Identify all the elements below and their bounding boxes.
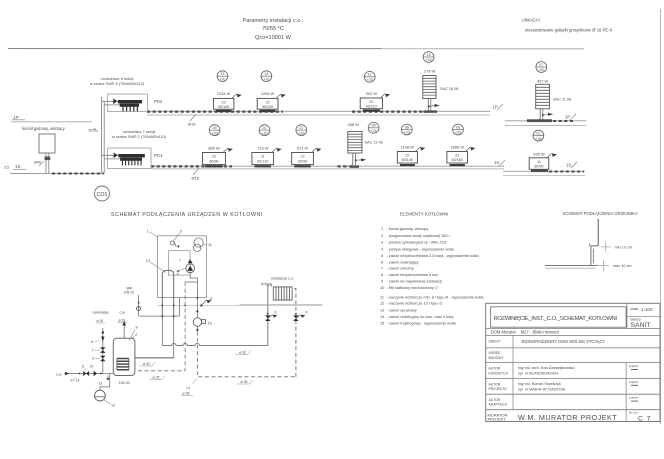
svg-text:438 W: 438 W bbox=[348, 122, 360, 127]
wire: top ceiling line bbox=[8, 48, 584, 50]
note: UWAGA remark bbox=[522, 18, 613, 33]
svg-text:60/90: 60/90 bbox=[534, 165, 543, 169]
svg-text:AUTOR: AUTOR bbox=[489, 398, 501, 402]
svg-text:278 W: 278 W bbox=[424, 69, 436, 74]
label diam 16 first floor bbox=[188, 114, 196, 127]
svg-text:branża: branża bbox=[631, 317, 641, 321]
svg-text:AUTOR: AUTOR bbox=[489, 382, 501, 386]
radiator R8 1688W 22 60/160 bbox=[447, 144, 476, 166]
svg-text:7: 7 bbox=[179, 259, 181, 263]
svg-text:PROJEKTU: PROJEKTU bbox=[489, 387, 508, 391]
svg-text:podpis: podpis bbox=[629, 380, 639, 384]
node label room 13 +20 bbox=[217, 71, 228, 82]
note: installation parameters bbox=[243, 18, 304, 41]
svg-text:08: 08 bbox=[405, 125, 409, 129]
svg-text:+20: +20 bbox=[367, 78, 373, 82]
svg-text:9 / 14: 9 / 14 bbox=[71, 379, 80, 383]
svg-text:14: 14 bbox=[264, 72, 268, 76]
svg-text:ELEMENTY KOTŁOWNI: ELEMENTY KOTŁOWNI bbox=[400, 212, 448, 217]
svg-text:L1: L1 bbox=[187, 386, 191, 390]
svg-text:DN 20: DN 20 bbox=[124, 291, 134, 295]
node 1P marker right bbox=[565, 114, 576, 120]
svg-text:skala: skala bbox=[631, 307, 639, 311]
towel radiator T1 278W SAC 18 08 bbox=[423, 69, 459, 113]
zw cold water inlet bbox=[56, 365, 113, 383]
svg-text:13: 13 bbox=[146, 259, 150, 263]
svg-text:1P: 1P bbox=[565, 115, 570, 120]
boiler casing box bbox=[147, 230, 207, 298]
radiator R5 713W 11 60/120 bbox=[252, 145, 282, 167]
valve 6 on return bbox=[293, 311, 307, 322]
radiator return pipe dashed bbox=[292, 289, 296, 377]
svg-text:z.w.: z.w. bbox=[56, 373, 62, 377]
svg-text:+20: +20 bbox=[220, 77, 226, 81]
svg-text:6: 6 bbox=[275, 311, 277, 315]
svg-text:+20: +20 bbox=[298, 131, 304, 135]
svg-text:mgr inż. arch. Ewa Dziewiątkow: mgr inż. arch. Ewa Dziewiątkowska bbox=[518, 366, 574, 370]
svg-text:8: 8 bbox=[136, 326, 138, 330]
svg-text:07: 07 bbox=[539, 63, 543, 67]
svg-text:niezaizolowane gałązki grzejni: niezaizolowane gałązki grzejnikowe Ø 16 … bbox=[525, 28, 612, 33]
svg-text:ø 22: ø 22 bbox=[119, 319, 126, 323]
svg-text:1284 W: 1284 W bbox=[261, 91, 275, 96]
svg-text:SAC 18 08: SAC 18 08 bbox=[440, 87, 458, 91]
svg-text:w szafce SWP-2 (700x560x110): w szafce SWP-2 (700x560x110) bbox=[112, 135, 167, 139]
node label room 09 +20 bbox=[209, 125, 220, 136]
three-way valve 15 bbox=[193, 297, 212, 331]
pump outlet drop bbox=[190, 273, 197, 282]
pipe diameter tag supply bbox=[236, 351, 252, 355]
node label room 02 +20 bbox=[259, 125, 270, 136]
svg-text:DOM Murator M27 - Blisko ma: DOM Murator M27 - Blisko marzeń bbox=[491, 330, 560, 335]
cw outlet arrow bbox=[118, 311, 128, 339]
svg-text:Qco=10001 W: Qco=10001 W bbox=[255, 35, 292, 41]
svg-text:713 W: 713 W bbox=[257, 145, 269, 150]
svg-text:KONCEPCJI: KONCEPCJI bbox=[489, 371, 508, 375]
svg-text:11 - naczynie wzbiorcze min.: 11 - naczynie wzbiorcze min. 8 l typu N … bbox=[380, 294, 484, 299]
svg-text:ø 16: ø 16 bbox=[97, 319, 104, 323]
svg-text:UWAGA!: UWAGA! bbox=[522, 18, 540, 23]
svg-text:10 - filtr siatkowy mechanicz: 10 - filtr siatkowy mechaniczny 1" bbox=[380, 285, 439, 290]
svg-text:ø16: ø16 bbox=[261, 282, 267, 286]
node label room 01 +20 bbox=[296, 125, 307, 136]
svg-text:BUDOWY: BUDOWY bbox=[489, 356, 505, 360]
gas supply line bbox=[124, 286, 179, 317]
boiler connection line with valve 8 bbox=[158, 297, 323, 307]
svg-text:22: 22 bbox=[455, 154, 459, 158]
svg-text:10: 10 bbox=[90, 365, 94, 369]
wire: ground floor line at boiler bbox=[10, 172, 104, 174]
radiator connection detail bbox=[545, 211, 638, 271]
svg-text:instalacja c.o.: instalacja c.o. bbox=[271, 277, 294, 281]
node label room 16 +24 bbox=[423, 52, 434, 63]
svg-text:16: 16 bbox=[427, 53, 431, 57]
svg-text:6: 6 bbox=[306, 311, 308, 315]
svg-text:rozdzielacz 5 sekcji: rozdzielacz 5 sekcji bbox=[101, 77, 134, 81]
node CO1 bbox=[95, 186, 110, 201]
svg-text:Parametry instalacji c.o.:: Parametry instalacji c.o.: bbox=[243, 18, 304, 24]
svg-text:ADAPTACJI: ADAPTACJI bbox=[489, 403, 507, 407]
svg-text:SAC 11 08: SAC 11 08 bbox=[365, 141, 383, 145]
svg-text:22: 22 bbox=[222, 100, 226, 104]
svg-text:4: 4 bbox=[177, 272, 179, 276]
svg-text:SANIT: SANIT bbox=[631, 322, 651, 329]
radiator supply pipe bbox=[268, 284, 271, 346]
boiler hydro block inner box bbox=[169, 251, 191, 275]
svg-text:ø 25: ø 25 bbox=[153, 376, 160, 380]
svg-text:5 - zawór bezpieczeństwa 2.5: 5 - zawór bezpieczeństwa 2.5 bara - wypo… bbox=[381, 253, 479, 258]
radiator R1 1234W 22 45/140 bbox=[213, 91, 241, 112]
svg-text:14 - zawór redukcyjny do ciśn: 14 - zawór redukcyjny do ciśn. max 4 bar… bbox=[380, 314, 454, 319]
svg-text:12 - naczynie wzbiorcze 12 l: 12 - naczynie wzbiorcze 12 l typu D bbox=[380, 301, 442, 306]
svg-text:+20: +20 bbox=[212, 131, 218, 135]
legend: elementy kotlowni bbox=[380, 212, 484, 326]
svg-text:22: 22 bbox=[405, 154, 409, 158]
svg-text:+20: +20 bbox=[538, 68, 544, 72]
svg-text:01: 01 bbox=[536, 131, 540, 135]
scan right edge line bbox=[660, 9, 662, 424]
instalacja co radiator bbox=[261, 277, 294, 301]
svg-text:+20: +20 bbox=[455, 131, 461, 135]
svg-text:w szafce SWP-2 (700x560x110): w szafce SWP-2 (700x560x110) bbox=[90, 82, 145, 86]
svg-text:889 W: 889 W bbox=[208, 145, 220, 150]
svg-text:1688 W: 1688 W bbox=[450, 144, 464, 149]
svg-text:min 10 cm: min 10 cm bbox=[615, 246, 633, 250]
svg-text:6 - zawór odcinający: 6 - zawór odcinający bbox=[381, 259, 419, 264]
svg-text:PG1: PG1 bbox=[154, 153, 163, 158]
svg-text:1234 W: 1234 W bbox=[217, 91, 231, 96]
svg-text:ø 32: ø 32 bbox=[143, 362, 150, 366]
label diam 16 ground floor bbox=[192, 168, 200, 181]
co supply line to radiator bbox=[162, 343, 267, 345]
manifold PG2 (5 sections) bbox=[90, 77, 163, 112]
svg-text:60/90: 60/90 bbox=[209, 160, 218, 164]
wire: offset bend bbox=[591, 246, 598, 266]
svg-text:rozdzielacz 7 sekcji: rozdzielacz 7 sekcji bbox=[123, 130, 156, 134]
svg-text:1 - kociół gazowy, wiszący: 1 - kociół gazowy, wiszący bbox=[381, 226, 429, 231]
wire: right section first floor line bbox=[505, 121, 587, 126]
svg-text:1:100: 1:100 bbox=[641, 307, 653, 312]
svg-text:70/55 °C: 70/55 °C bbox=[262, 26, 284, 32]
svg-text:ø 32: ø 32 bbox=[239, 351, 246, 355]
towel radiator T2 438W SAC 11 08 bbox=[346, 122, 383, 168]
svg-text:01: 01 bbox=[299, 126, 303, 130]
svg-text:13: 13 bbox=[221, 72, 225, 76]
svg-text:Ø25: Ø25 bbox=[89, 129, 96, 133]
wire: ground floor pipe line bbox=[151, 166, 504, 169]
svg-text:+24: +24 bbox=[371, 129, 377, 133]
radiator R4 889W 22 60/90 bbox=[203, 145, 233, 167]
radiator R3 902W 22 45/110 bbox=[360, 91, 390, 112]
svg-text:06: 06 bbox=[456, 125, 460, 129]
svg-text:+20: +20 bbox=[263, 77, 269, 81]
svg-text:6: 6 bbox=[91, 340, 93, 344]
svg-text:2 - podgrzewacz wody użytkow: 2 - podgrzewacz wody użytkowej 150 l bbox=[381, 233, 450, 238]
svg-text:7: 7 bbox=[92, 349, 94, 353]
svg-text:1P: 1P bbox=[14, 115, 19, 120]
svg-text:60/100: 60/100 bbox=[402, 158, 413, 162]
svg-text:02: 02 bbox=[263, 126, 267, 130]
svg-text:+16: +16 bbox=[535, 137, 541, 141]
wire: riser from radiator bbox=[597, 219, 599, 246]
svg-text:+24: +24 bbox=[426, 58, 432, 62]
svg-text:8 - zawór bezpieczeństwa 6 b: 8 - zawór bezpieczeństwa 6 bar bbox=[381, 272, 439, 277]
svg-text:60/120: 60/120 bbox=[257, 160, 268, 164]
svg-text:OBIEKT: OBIEKT bbox=[489, 340, 501, 344]
svg-text:04: 04 bbox=[372, 124, 376, 128]
title block texts bbox=[488, 307, 653, 423]
svg-text:1148 W: 1148 W bbox=[401, 144, 414, 149]
svg-text:8: 8 bbox=[210, 297, 212, 301]
node 1S marker right bbox=[566, 162, 577, 168]
svg-text:11: 11 bbox=[208, 243, 212, 247]
expansion vessel N (11) bbox=[194, 238, 212, 252]
svg-text:3 - pompa cyrkulacyjna np. W: 3 - pompa cyrkulacyjna np. Wilo Z15 bbox=[381, 239, 446, 244]
svg-text:SAC 11 08: SAC 11 08 bbox=[553, 98, 571, 102]
title block frame bbox=[486, 303, 660, 421]
svg-text:JEDNORODZINNY DOM WOLNO STOJĄC: JEDNORODZINNY DOM WOLNO STOJĄCY bbox=[521, 339, 606, 344]
svg-text:1S: 1S bbox=[566, 163, 571, 168]
node 1S marker mid-right bbox=[494, 160, 505, 166]
drain valve 13 bbox=[99, 376, 111, 386]
svg-text:W.M. MURATOR PROJEKT: W.M. MURATOR PROJEKT bbox=[518, 413, 617, 422]
node 1S left level marker bbox=[4, 164, 26, 170]
svg-text:Ø50: Ø50 bbox=[34, 161, 41, 165]
svg-text:1P: 1P bbox=[493, 105, 498, 110]
svg-text:AUTOR: AUTOR bbox=[489, 367, 501, 371]
thin wall line bbox=[239, 304, 322, 306]
svg-text:535 W: 535 W bbox=[533, 152, 545, 157]
towel radiator T3 427W SAC 11 08 bbox=[527, 79, 571, 122]
svg-text:12: 12 bbox=[111, 404, 115, 408]
svg-text:60/90: 60/90 bbox=[298, 160, 307, 164]
wire: floor pipe bbox=[545, 265, 598, 267]
safety valve 5 (boiler) bbox=[170, 230, 182, 248]
node label room 11 +20 bbox=[364, 71, 375, 82]
svg-text:max 10 cm: max 10 cm bbox=[613, 264, 632, 268]
svg-text:ADRES: ADRES bbox=[489, 351, 501, 355]
dhw tank (2) bbox=[113, 326, 137, 386]
svg-text:PROJEKT: PROJEKT bbox=[488, 417, 507, 422]
svg-text:SCHEMAT PODŁĄCZENIA GRZEJNIKA: SCHEMAT PODŁĄCZENIA GRZEJNIKA bbox=[563, 211, 638, 216]
svg-text:SCHEMAT PODŁĄCZENIA URZĄDZEŃ W: SCHEMAT PODŁĄCZENIA URZĄDZEŃ W KOTŁOWNI bbox=[111, 211, 263, 218]
svg-text:15: 15 bbox=[208, 322, 212, 326]
pipe diameter tag return bbox=[237, 380, 253, 384]
manifold PG1 (7 sections) bbox=[102, 130, 167, 169]
pipe diameter tags middle bbox=[140, 362, 166, 380]
node label room 04 +24 bbox=[368, 122, 379, 133]
svg-text:+20: +20 bbox=[404, 131, 410, 135]
dimension max 10 cm bbox=[599, 260, 632, 271]
svg-text:Ø16: Ø16 bbox=[192, 176, 200, 181]
svg-text:5: 5 bbox=[180, 230, 182, 234]
svg-text:mgr inż. Roman Strzelczyk: mgr inż. Roman Strzelczyk bbox=[518, 382, 561, 386]
wire: first floor pipe line bbox=[147, 111, 490, 115]
svg-text:22: 22 bbox=[212, 155, 216, 159]
svg-text:09: 09 bbox=[213, 126, 217, 130]
svg-text:22: 22 bbox=[301, 155, 305, 159]
svg-text:45/110: 45/110 bbox=[366, 105, 377, 109]
svg-text:C 7: C 7 bbox=[638, 416, 652, 423]
svg-text:ø 25: ø 25 bbox=[241, 380, 248, 384]
valve 6 on supply bbox=[265, 311, 277, 322]
cyrkulacja line bbox=[91, 311, 108, 374]
wire: right section ground floor line bbox=[503, 171, 585, 175]
svg-text:22: 22 bbox=[266, 100, 270, 104]
svg-text:PG2: PG2 bbox=[154, 99, 163, 104]
svg-text:upr. nr MAB-W-W-7342/97/98: upr. nr MAB-W-W-7342/97/98 bbox=[518, 387, 565, 391]
co return dashed from boiler bbox=[135, 282, 296, 377]
svg-text:6: 6 bbox=[82, 365, 84, 369]
svg-text:9 - zawór do napełniania ins: 9 - zawór do napełniania instalacji bbox=[381, 279, 442, 284]
expansion vessel D (12) bbox=[95, 374, 116, 408]
node label room 08 +20 bbox=[401, 124, 412, 135]
node 1P left level marker bbox=[11, 115, 92, 122]
svg-text:1S: 1S bbox=[494, 160, 499, 165]
svg-text:+20: +20 bbox=[262, 131, 268, 135]
node label room 14 +20 bbox=[261, 71, 272, 82]
svg-text:4 - pompa obiegowa - wyposaż: 4 - pompa obiegowa - wyposażenie kotła bbox=[381, 246, 455, 251]
svg-text:kociół gazowy, wiszący: kociół gazowy, wiszący bbox=[22, 126, 66, 131]
svg-text:upr. nr BŁ/PdOK/34/2004: upr. nr BŁ/PdOK/34/2004 bbox=[518, 372, 558, 376]
svg-text:podpis: podpis bbox=[629, 364, 639, 368]
pump 4 (circulator in boiler) bbox=[176, 264, 195, 276]
svg-text:cyrkulacja: cyrkulacja bbox=[93, 311, 109, 315]
svg-text:902 W: 902 W bbox=[366, 91, 378, 96]
node label room 07 +20 bbox=[536, 62, 547, 73]
svg-text:podpis: podpis bbox=[629, 396, 639, 400]
svg-text:45/140: 45/140 bbox=[218, 105, 229, 109]
radiator R2 1284W 22 45/120 bbox=[257, 91, 286, 112]
svg-text:c.w.: c.w. bbox=[120, 311, 126, 315]
riser pipe pair to manifolds bbox=[89, 97, 105, 173]
svg-text:1S: 1S bbox=[15, 164, 20, 169]
dimension min 10 cm bbox=[601, 242, 632, 253]
svg-text:1: 1 bbox=[147, 230, 149, 234]
svg-text:3: 3 bbox=[92, 357, 94, 361]
svg-text:11: 11 bbox=[537, 160, 541, 164]
svg-text:60/160: 60/160 bbox=[452, 158, 463, 162]
boiler (kociol gazowy wiszacy) plan symbol bbox=[22, 126, 66, 173]
boiler pipes down to tee bbox=[135, 319, 174, 358]
radiator R6 671W 22 60/90 bbox=[292, 145, 322, 167]
svg-text:3,5: 3,5 bbox=[4, 166, 9, 170]
svg-text:11: 11 bbox=[368, 73, 372, 77]
svg-text:ø 25: ø 25 bbox=[183, 392, 190, 396]
node label room 01 +16 bbox=[533, 130, 544, 141]
node 1P marker mid-right bbox=[493, 104, 504, 110]
heat exchanger cylinder (13) bbox=[146, 259, 174, 319]
node label room 06 +20 bbox=[453, 124, 464, 135]
svg-text:CO1: CO1 bbox=[96, 192, 107, 198]
svg-text:15 - zawór trójdrogowy - wypo: 15 - zawór trójdrogowy - wyposażenie kot… bbox=[380, 321, 457, 326]
svg-text:Nr rys.: Nr rys. bbox=[629, 411, 638, 415]
svg-text:2: 2 bbox=[135, 333, 137, 337]
svg-text:13: 13 bbox=[99, 382, 103, 386]
svg-text:ROZWINIĘCIE_INST._C.O._SCHEMAT: ROZWINIĘCIE_INST._C.O._SCHEMAT_KOTŁOWNI bbox=[494, 316, 618, 322]
svg-text:11: 11 bbox=[261, 155, 265, 159]
svg-text:Ø16: Ø16 bbox=[188, 122, 196, 127]
check valve 7 bbox=[179, 259, 193, 263]
svg-text:13 - zawór spustowy: 13 - zawór spustowy bbox=[380, 307, 417, 312]
svg-text:427 W: 427 W bbox=[537, 79, 549, 84]
svg-text:671 W: 671 W bbox=[297, 145, 309, 150]
radiator R7 1148W 22 60/100 bbox=[397, 144, 425, 166]
radiator R9 535W 11 60/90 bbox=[529, 152, 557, 173]
node L1 tag bbox=[181, 379, 197, 396]
svg-text:gaz: gaz bbox=[127, 286, 133, 290]
svg-text:7 - zawór zwrotny: 7 - zawór zwrotny bbox=[381, 265, 414, 270]
svg-text:22: 22 bbox=[369, 100, 373, 104]
svg-text:DN 20: DN 20 bbox=[119, 381, 130, 385]
svg-text:45/120: 45/120 bbox=[262, 105, 273, 109]
